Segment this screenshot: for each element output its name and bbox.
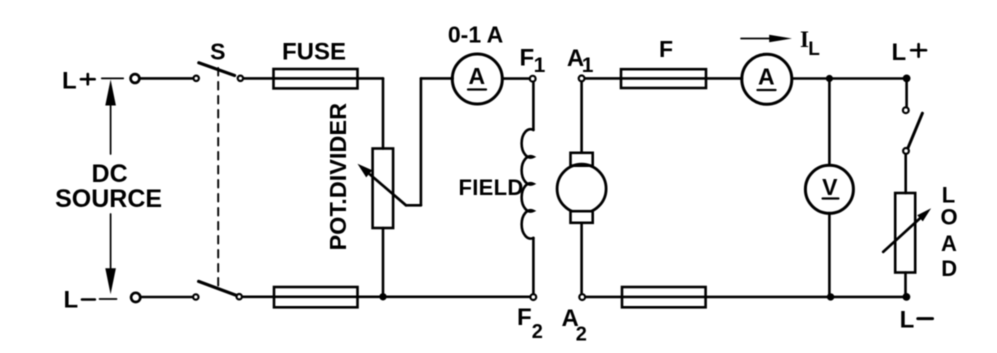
svg-text:A: A — [468, 63, 485, 89]
rheostat LOAD body — [895, 193, 915, 273]
wire voltmeter to bottom rail — [828, 213, 831, 296]
wire ammeter to F1 — [502, 77, 529, 80]
bottom-right fuse body — [622, 287, 706, 307]
bottom switch left contact — [193, 294, 198, 299]
wire A1 down to armature — [580, 82, 583, 153]
svg-text:L: L — [64, 287, 79, 314]
junction pot divider / bottom rail — [379, 293, 386, 300]
label L- (bottom left) — [64, 287, 79, 314]
svg-text:1: 1 — [582, 54, 594, 77]
svg-text:F: F — [659, 36, 673, 62]
svg-text:2: 2 — [532, 321, 543, 343]
wire A2 to bottom-right fuse — [585, 296, 622, 299]
fuse FUSE body — [274, 69, 358, 88]
svg-text:L: L — [900, 307, 915, 334]
label POT.DIVIDER — [325, 103, 351, 251]
label F2 — [517, 304, 543, 343]
wire bottom-right fuse to L- corner — [706, 296, 907, 299]
svg-text:L: L — [808, 39, 820, 60]
load switch lower contact — [903, 148, 909, 154]
wire fuse to corner — [358, 77, 384, 80]
rheostat LOAD arrow — [883, 217, 921, 252]
bottom switch blade — [199, 281, 236, 295]
fuse FUSE element line — [274, 77, 358, 80]
terminal A1 — [579, 76, 585, 82]
wire switch to fuse — [244, 77, 274, 80]
junction L+ corner — [903, 75, 911, 83]
bottom-left fuse element line — [274, 295, 358, 298]
fuse F body — [621, 69, 706, 88]
wire bottom switch to bottom fuse — [243, 295, 275, 298]
bottom-left fuse body — [274, 287, 358, 307]
pot divider wiper arrow — [406, 204, 421, 207]
switch S blade — [199, 63, 235, 76]
terminal F2 — [530, 294, 536, 300]
junction voltmeter branch — [826, 75, 833, 82]
minus sign of L- — [82, 298, 95, 301]
svg-text:A: A — [941, 231, 957, 256]
wire A1 to fuse F — [585, 77, 621, 80]
label FIELD — [459, 175, 524, 200]
tick at L- terminal — [100, 298, 117, 300]
svg-text:F: F — [517, 304, 532, 331]
load switch upper contact — [903, 107, 909, 113]
terminal circle L- — [131, 293, 140, 302]
wire L+ to switch S — [140, 77, 193, 80]
wire pot divider bottom to rail — [382, 228, 385, 297]
wire ammeter to L+ corner — [792, 77, 904, 80]
motor armature body — [557, 164, 606, 213]
dashed gang link of switch S — [217, 68, 219, 290]
switch S left contact — [194, 76, 199, 81]
current direction arrow IL — [741, 38, 771, 40]
label DC — [92, 160, 128, 188]
wire L- to bottom switch — [141, 296, 193, 299]
terminal A2 — [579, 294, 585, 300]
label S — [210, 38, 225, 64]
svg-text:SOURCE: SOURCE — [55, 185, 162, 213]
ammeter A1 (0-1 A) — [452, 54, 502, 104]
label A1 — [567, 45, 594, 77]
label L- (bottom right) — [900, 307, 915, 334]
motor armature top brush — [571, 153, 593, 166]
inductor FIELD coil — [522, 129, 534, 238]
wire switch to load rheostat — [904, 154, 907, 193]
svg-text:A: A — [758, 64, 775, 90]
motor armature bottom brush — [571, 211, 593, 223]
terminal circle L+ — [131, 74, 140, 83]
svg-text:FIELD: FIELD — [459, 175, 524, 200]
wire fuse F to ammeter IL — [706, 77, 742, 80]
load switch blade — [908, 113, 922, 148]
DC source dimension arrow (up) — [105, 80, 116, 155]
wire load to bottom rail — [904, 273, 907, 297]
wire armature to A2 — [580, 223, 583, 294]
svg-text:POT.DIVIDER: POT.DIVIDER — [325, 103, 351, 251]
terminal F1 — [530, 76, 536, 82]
label 0-1 A — [448, 22, 503, 48]
wire F1 down to field coil — [532, 82, 535, 130]
svg-text:S: S — [210, 38, 225, 64]
svg-text:L: L — [892, 39, 907, 66]
label L+ (top left) — [62, 68, 77, 95]
ammeter A2 (load current) — [742, 54, 792, 104]
junction L- corner — [903, 293, 911, 301]
label IL — [800, 27, 820, 60]
switch S right contact — [238, 76, 243, 81]
svg-text:FUSE: FUSE — [282, 38, 346, 65]
svg-text:F: F — [520, 45, 535, 72]
svg-text:1: 1 — [534, 54, 546, 77]
voltmeter V — [805, 165, 853, 213]
wire wiper up — [420, 78, 423, 205]
bottom switch right contact — [237, 294, 242, 299]
wire wiper corner to ammeter — [421, 77, 453, 80]
bottom-right fuse element line — [622, 296, 706, 299]
label L+ (right) — [892, 39, 907, 66]
label F1 — [520, 45, 546, 78]
DC source dimension arrow (down) — [105, 214, 116, 294]
svg-text:0-1 A: 0-1 A — [448, 22, 503, 48]
svg-text:DC: DC — [92, 160, 128, 188]
svg-text:L: L — [62, 68, 77, 95]
wire bottom fuse to F2 — [358, 295, 531, 298]
fuse F element line — [621, 77, 706, 80]
label SOURCE — [55, 185, 162, 213]
label A2 — [562, 305, 587, 345]
wire corner down to pot divider — [382, 78, 385, 148]
wire voltmeter branch down — [828, 79, 831, 166]
tick at L+ terminal — [102, 77, 123, 79]
plus sign of L+ — [81, 78, 95, 81]
wire field coil to F2 — [532, 238, 535, 294]
label FUSE — [282, 38, 346, 65]
wire L+ down to switch — [905, 79, 908, 107]
svg-text:O: O — [940, 205, 957, 230]
pot divider R body — [373, 149, 394, 229]
svg-text:2: 2 — [576, 323, 587, 345]
label LOAD (stacked) — [940, 183, 957, 281]
junction voltmeter bottom — [827, 293, 834, 300]
svg-text:D: D — [941, 256, 957, 281]
svg-text:V: V — [822, 174, 838, 200]
label F — [659, 36, 673, 62]
